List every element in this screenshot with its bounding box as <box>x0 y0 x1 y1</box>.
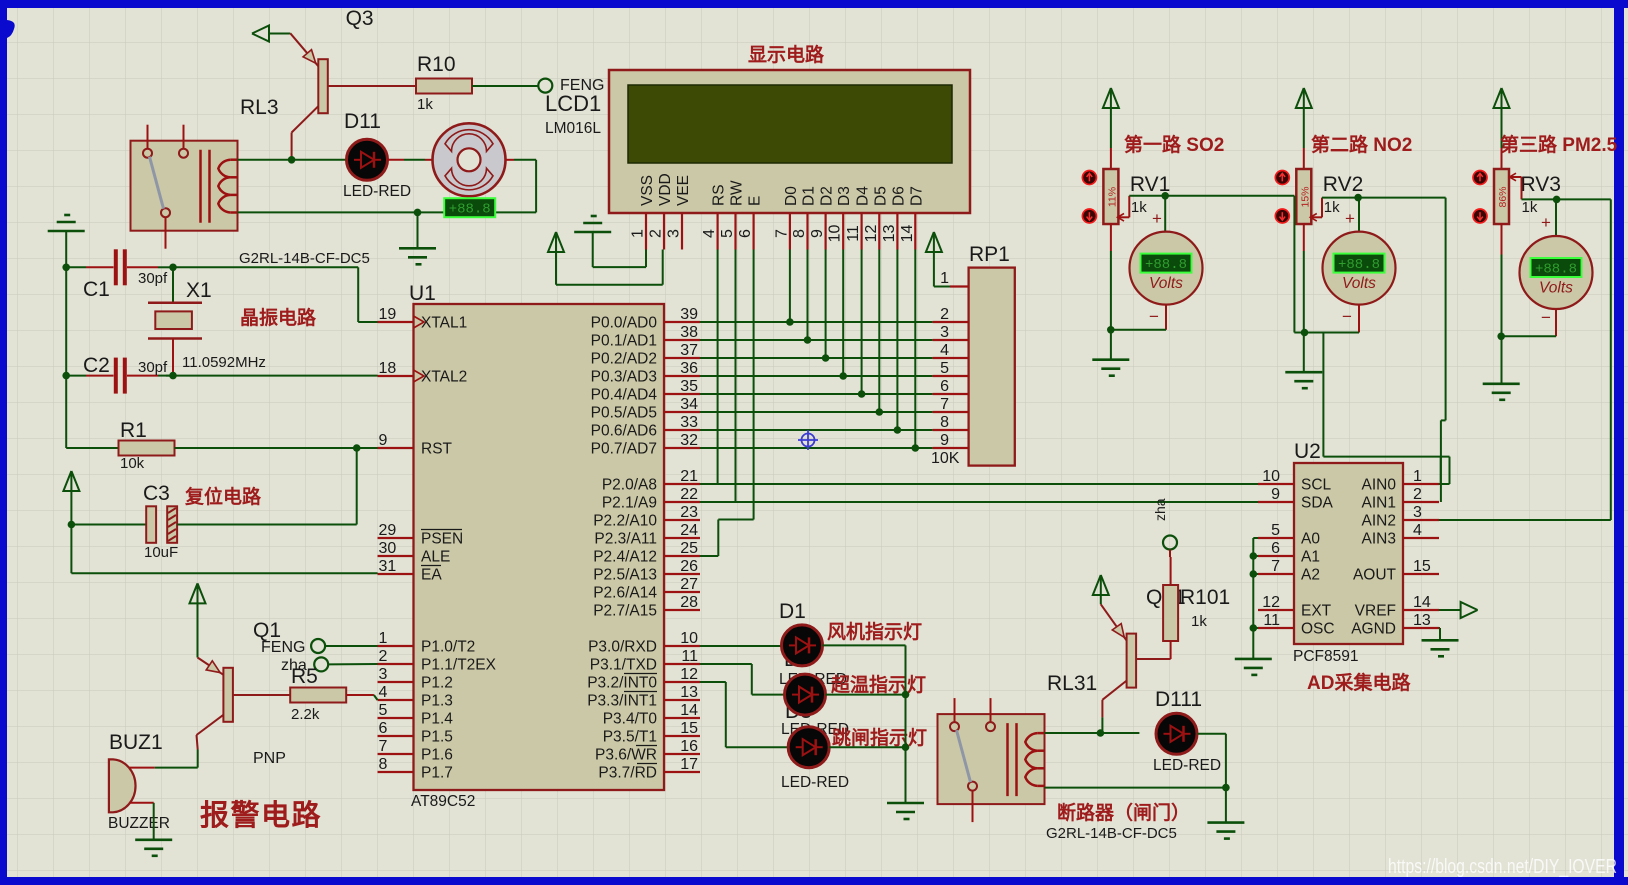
svg-text:1k: 1k <box>1131 199 1147 216</box>
svg-text:−: − <box>1149 307 1159 326</box>
svg-text:1k: 1k <box>1191 613 1207 630</box>
svg-text:VREF: VREF <box>1355 603 1396 620</box>
junction RST/C3 feedback <box>353 444 361 452</box>
svg-text:31: 31 <box>379 558 397 575</box>
terminal zha (P1.1) <box>314 657 328 671</box>
svg-text:EXT: EXT <box>1301 603 1332 620</box>
U2 pin 13 AGND <box>1403 627 1439 629</box>
svg-text:15%: 15% <box>1299 186 1311 207</box>
svg-text:VEE: VEE <box>675 175 692 206</box>
svg-text:D1: D1 <box>779 600 806 623</box>
svg-text:30pf: 30pf <box>138 359 168 376</box>
wire Q1 base to R5 <box>233 694 290 696</box>
ground <box>399 247 436 250</box>
svg-text:第二路 NO2: 第二路 NO2 <box>1311 133 1412 156</box>
svg-text:17: 17 <box>680 756 698 773</box>
wire zha to R101 <box>1169 550 1171 558</box>
voltmeter V3 <box>1520 236 1593 309</box>
wire LCD D7 to P0 bus <box>914 250 916 449</box>
svg-text:38: 38 <box>680 324 698 341</box>
svg-text:P0.6/AD6: P0.6/AD6 <box>591 423 657 440</box>
U1 pin 27 P2.6/A14 <box>664 591 700 593</box>
svg-text:7: 7 <box>1271 558 1280 575</box>
svg-text:11: 11 <box>681 648 698 665</box>
U2 pin 15 AOUT <box>1403 573 1439 575</box>
svg-text:2.2k: 2.2k <box>291 706 320 723</box>
wire P3.0 to D1 <box>700 645 782 647</box>
relay RL3 <box>131 141 238 231</box>
svg-text:13: 13 <box>1413 612 1431 629</box>
wire LCD D0 to P0 bus <box>789 250 791 323</box>
svg-text:P3.5/T1: P3.5/T1 <box>603 729 657 746</box>
motor rpm display <box>444 198 495 217</box>
svg-text:RP1: RP1 <box>969 243 1010 266</box>
U1 pin 17 P3.7/RD <box>664 771 700 773</box>
svg-text:10: 10 <box>680 630 698 647</box>
resistor R10 <box>416 79 472 94</box>
motor (fan) <box>433 123 506 196</box>
U2 pin 3 AIN2 <box>1403 519 1439 521</box>
buzzer BUZ1 <box>109 759 136 812</box>
svg-text:C2: C2 <box>83 354 110 377</box>
svg-text:P0.0/AD0: P0.0/AD0 <box>591 315 658 332</box>
svg-text:RS: RS <box>711 184 728 206</box>
wire VDD supply <box>555 252 557 285</box>
svg-text:10K: 10K <box>931 450 960 467</box>
ground <box>574 231 611 234</box>
svg-text:AIN2: AIN2 <box>1362 513 1396 530</box>
wire R101 to Q31 base <box>1170 641 1172 659</box>
svg-text:7: 7 <box>379 738 388 755</box>
svg-text:14: 14 <box>1413 594 1431 611</box>
svg-text:D11: D11 <box>344 110 381 133</box>
wire P0.1 to RP1 <box>700 339 933 341</box>
svg-text:6: 6 <box>379 720 388 737</box>
svg-text:12: 12 <box>1262 594 1280 611</box>
wire VSS to ground <box>645 250 647 268</box>
relay RL31 (breaker) <box>938 714 1045 804</box>
svg-text:P1.3: P1.3 <box>421 693 453 710</box>
U1 pin 16 P3.6/WR <box>664 753 700 755</box>
svg-text:6: 6 <box>737 229 754 238</box>
wire P3.1 to D2 <box>700 663 752 665</box>
svg-text:15: 15 <box>680 720 698 737</box>
RV2 wiper <box>1312 216 1322 218</box>
svg-text:XTAL2: XTAL2 <box>421 369 467 386</box>
svg-text:LED-RED: LED-RED <box>781 774 849 791</box>
wire Q3 collector down to relay/LED node <box>291 133 293 160</box>
U2 pin 5 A0 <box>1258 537 1294 539</box>
wire P0.6 to RP1 <box>700 429 933 431</box>
wire E vertical <box>753 250 755 520</box>
ground <box>1483 382 1520 385</box>
ground <box>887 802 924 805</box>
svg-text:OSC: OSC <box>1301 621 1335 638</box>
svg-text:23: 23 <box>680 504 698 521</box>
svg-text:第三路 PM2.5: 第三路 PM2.5 <box>1500 133 1618 156</box>
wire P0.7 to RP1 <box>700 447 933 449</box>
wire LCD D5 to P0 bus <box>878 250 880 413</box>
wire Q1 emitter supply <box>197 603 199 657</box>
svg-text:U2: U2 <box>1294 440 1321 463</box>
svg-text:11: 11 <box>845 225 862 242</box>
svg-text:9: 9 <box>1271 486 1280 503</box>
svg-text:P2.0/A8: P2.0/A8 <box>602 477 657 494</box>
U1 pin 21 P2.0/A8 <box>664 483 700 485</box>
power terminal <box>1494 88 1510 108</box>
svg-text:PNP: PNP <box>253 750 286 767</box>
svg-text:4: 4 <box>1413 522 1422 539</box>
power terminal <box>926 232 942 252</box>
svg-text:+: + <box>1152 209 1162 228</box>
crystal X1 <box>172 267 174 302</box>
wire RV3 bottom to ground <box>1501 223 1503 254</box>
U1 pin 28 P2.7/A15 <box>664 609 700 611</box>
wire to XTAL2 <box>166 375 378 377</box>
capacitor C1 <box>66 266 86 268</box>
power terminal <box>63 471 79 491</box>
wire D111 cathode <box>1198 733 1226 735</box>
wire V3 plus <box>1555 199 1557 235</box>
svg-text:G2RL-14B-CF-DC5: G2RL-14B-CF-DC5 <box>239 250 370 267</box>
svg-text:8: 8 <box>940 414 949 431</box>
svg-text:P0.5/AD5: P0.5/AD5 <box>591 405 657 422</box>
svg-text:39: 39 <box>680 306 698 323</box>
svg-text:D6: D6 <box>890 186 907 206</box>
U2 pin 14 VREF <box>1403 609 1439 611</box>
svg-text:R5: R5 <box>291 665 318 688</box>
wire V1 plus <box>1164 196 1166 232</box>
svg-text:D3: D3 <box>836 186 853 206</box>
wire motor right loop <box>506 159 515 161</box>
svg-text:P3.7/RD: P3.7/RD <box>598 765 657 782</box>
svg-text:SDA: SDA <box>1301 495 1334 512</box>
junction C2/X1 <box>169 372 177 380</box>
wire AGND to ground <box>1439 627 1440 629</box>
svg-text:34: 34 <box>680 396 698 413</box>
voltmeter V1 <box>1130 232 1203 305</box>
junction RV3 wiper / V3+ <box>1553 196 1561 204</box>
U1 pin 11 P3.1/TXD <box>664 663 700 665</box>
svg-text:−: − <box>1541 308 1551 327</box>
potentiometer RV1 1k <box>1103 169 1118 224</box>
transistor Q3 (PNP) <box>290 33 318 66</box>
power terminal (VREF) <box>1439 609 1461 611</box>
svg-text:C3: C3 <box>143 482 170 505</box>
svg-text:EA: EA <box>421 567 442 584</box>
U2 pin 11 OSC <box>1258 627 1294 629</box>
svg-text:19: 19 <box>379 306 397 323</box>
svg-text:RV2: RV2 <box>1323 173 1363 196</box>
wire V2 plus <box>1358 198 1360 232</box>
svg-text:SCL: SCL <box>1301 477 1332 494</box>
power terminal <box>1093 575 1109 595</box>
LCD screen <box>628 85 952 163</box>
wire RV3 wiper to AIN2 <box>1557 198 1611 200</box>
svg-text:+88.8: +88.8 <box>1535 262 1577 278</box>
svg-text:5: 5 <box>940 360 949 377</box>
svg-text:A2: A2 <box>1301 567 1320 584</box>
wire P0.2 to RP1 <box>700 357 933 359</box>
svg-text:LM016L: LM016L <box>545 120 601 137</box>
ground <box>135 838 172 841</box>
svg-text:3: 3 <box>940 324 949 341</box>
svg-text:+88.8: +88.8 <box>449 202 491 218</box>
RV1 wiper <box>1119 216 1129 218</box>
svg-text:D7: D7 <box>908 186 925 206</box>
svg-text:Volts: Volts <box>1539 280 1573 297</box>
U1 pin 37 P0.2/AD2 <box>664 357 700 359</box>
wire relay coil top to node <box>238 159 347 161</box>
svg-text:LED-RED: LED-RED <box>343 183 411 200</box>
svg-text:P1.6: P1.6 <box>421 747 453 764</box>
svg-text:−: − <box>1342 307 1352 326</box>
ground <box>1092 358 1129 361</box>
svg-text:P3.4/T0: P3.4/T0 <box>603 711 658 728</box>
wire relay coil bottom row <box>238 211 537 213</box>
transistor Q31 (PNP) <box>1101 604 1127 640</box>
svg-text:晶振电路: 晶振电路 <box>240 306 317 329</box>
svg-text:BUZ1: BUZ1 <box>109 731 163 754</box>
U1 XTAL1 input arrow <box>414 316 425 328</box>
wire C1 row to XTAL1 <box>173 266 358 268</box>
wire EA row <box>71 572 377 574</box>
U2 pin 12 EXT <box>1258 609 1294 611</box>
potentiometer RV3 1k <box>1494 169 1509 224</box>
svg-text:1: 1 <box>630 229 647 238</box>
junction RV1 bottom <box>1107 326 1115 334</box>
U1 pin 22 P2.1/A9 <box>664 501 700 503</box>
wire Q1 collector to buzzer <box>197 735 198 750</box>
svg-text:Q1: Q1 <box>253 619 281 642</box>
svg-text:断路器（闸门）: 断路器（闸门） <box>1057 801 1190 824</box>
U1 pin 15 P3.5/T1 <box>664 735 700 737</box>
RP1 pin 3 <box>933 339 969 341</box>
svg-text:11.0592MHz: 11.0592MHz <box>182 354 266 371</box>
RP1 pin 1 <box>950 285 969 287</box>
U2 pin 4 AIN3 <box>1403 537 1439 539</box>
svg-text:9: 9 <box>940 432 949 449</box>
wire zha to P1.1 <box>328 663 377 665</box>
svg-text:LED-RED: LED-RED <box>1153 757 1221 774</box>
svg-text:超温指示灯: 超温指示灯 <box>830 673 926 696</box>
svg-text:RW: RW <box>729 180 746 206</box>
terminal FENG (P1.0) <box>311 639 325 653</box>
svg-text:https://blog.csdn.net/DIY_IOVE: https://blog.csdn.net/DIY_IOVER <box>1388 856 1617 878</box>
svg-text:显示电路: 显示电路 <box>748 43 825 66</box>
svg-text:10: 10 <box>1262 468 1280 485</box>
wire P0.0 to RP1 <box>700 321 933 323</box>
svg-text:11%: 11% <box>1106 187 1118 207</box>
svg-text:18: 18 <box>379 360 397 377</box>
wire Q3 base to R10 <box>328 85 417 87</box>
U1 pin 12 P3.2/INT0 <box>664 681 700 683</box>
svg-text:Volts: Volts <box>1149 275 1183 292</box>
svg-text:8: 8 <box>791 229 808 238</box>
svg-text:AT89C52: AT89C52 <box>411 793 475 810</box>
wire relay RL31 coil bottom <box>1045 787 1226 789</box>
U1 pin 29 PSEN <box>378 537 414 539</box>
wire LCD D4 to P0 bus <box>861 250 863 395</box>
svg-text:G2RL-14B-CF-DC5: G2RL-14B-CF-DC5 <box>1046 825 1177 842</box>
U1 pin 14 P3.4/T0 <box>664 717 700 719</box>
svg-text:zha: zha <box>1152 498 1168 521</box>
U2 pin 7 A2 <box>1258 573 1294 575</box>
svg-text:36: 36 <box>680 360 698 377</box>
RP1 pin 5 <box>933 375 969 377</box>
svg-text:RV3: RV3 <box>1521 173 1561 196</box>
wire P2.1 row to U2 SDA <box>700 501 1258 503</box>
U1 pin 23 P2.2/A10 <box>664 519 700 521</box>
U1 pin 35 P0.4/AD4 <box>664 393 700 395</box>
U1 pin 32 P0.7/AD7 <box>664 447 700 449</box>
junction D2 cathode <box>902 691 910 699</box>
svg-text:+88.8: +88.8 <box>1145 257 1187 273</box>
svg-text:P1.5: P1.5 <box>421 729 453 746</box>
svg-text:AIN0: AIN0 <box>1362 477 1397 494</box>
svg-text:10uF: 10uF <box>144 544 178 561</box>
svg-text:PCF8591: PCF8591 <box>1293 648 1358 665</box>
svg-text:P2.2/A10: P2.2/A10 <box>593 513 657 530</box>
U1 pin 39 P0.0/AD0 <box>664 321 700 323</box>
U1 XTAL2 input arrow <box>414 370 425 382</box>
svg-text:RL31: RL31 <box>1047 672 1097 695</box>
svg-text:R1: R1 <box>120 419 147 442</box>
wire D11 to motor <box>388 159 405 161</box>
svg-text:24: 24 <box>680 522 698 539</box>
svg-text:D2: D2 <box>819 186 836 206</box>
svg-text:10k: 10k <box>120 455 145 472</box>
junction Q31 collector <box>1097 729 1105 737</box>
svg-text:ALE: ALE <box>421 549 450 566</box>
RP1 pin 2 <box>933 321 969 323</box>
wire RV1 wiper to AIN0 <box>1293 196 1295 333</box>
U1 pin 33 P0.6/AD6 <box>664 429 700 431</box>
svg-text:28: 28 <box>680 594 698 611</box>
junction C3 <box>68 521 76 529</box>
svg-text:2: 2 <box>1413 486 1422 503</box>
sheet border frame <box>0 0 1628 8</box>
svg-text:22: 22 <box>680 486 698 503</box>
svg-text:P2.6/A14: P2.6/A14 <box>593 585 657 602</box>
svg-text:P2.1/A9: P2.1/A9 <box>602 495 657 512</box>
svg-text:AIN1: AIN1 <box>1362 495 1396 512</box>
U1 pin 30 ALE <box>378 555 414 557</box>
U1 pin 5 P1.4 <box>378 717 414 719</box>
junction RV3 bottom <box>1497 333 1505 341</box>
svg-text:5: 5 <box>379 702 388 719</box>
svg-text:D5: D5 <box>872 186 889 206</box>
ADC U2 PCF8591 <box>1294 463 1403 644</box>
U1 pin 7 P1.6 <box>378 753 414 755</box>
U1 pin 25 P2.4/A12 <box>664 555 700 557</box>
svg-text:P3.6/WR: P3.6/WR <box>595 747 657 764</box>
power terminal <box>252 26 269 42</box>
wire RV1 bottom to ground <box>1110 223 1112 251</box>
resistor R5 <box>290 688 346 703</box>
ground <box>48 230 85 233</box>
U1 pin 19 XTAL1 <box>378 321 414 323</box>
svg-text:1: 1 <box>379 630 388 647</box>
wire P3.2 to D3 <box>700 681 726 683</box>
svg-text:D4: D4 <box>855 186 872 206</box>
U1 pin 26 P2.5/A13 <box>664 573 700 575</box>
svg-text:25: 25 <box>680 540 698 557</box>
RP1 pin 6 <box>933 393 969 395</box>
resistor R1 <box>119 441 175 456</box>
svg-text:4: 4 <box>701 229 718 238</box>
svg-text:PSEN: PSEN <box>421 531 463 548</box>
wire Q31 collector down <box>1101 700 1103 718</box>
U1 pin 8 P1.7 <box>378 771 414 773</box>
svg-text:D111: D111 <box>1155 688 1202 711</box>
RP1 pin 7 <box>933 411 969 413</box>
U1 pin 2 P1.1/T2EX <box>378 663 414 665</box>
svg-text:AD采集电路: AD采集电路 <box>1307 671 1411 694</box>
U1 pin 31 EA <box>378 573 414 575</box>
svg-text:4: 4 <box>940 342 949 359</box>
wire LCD D2 to P0 bus <box>825 250 827 359</box>
power terminal <box>548 232 564 252</box>
svg-text:37: 37 <box>680 342 698 359</box>
svg-text:5: 5 <box>719 229 736 238</box>
capacitor C2 <box>66 375 86 377</box>
svg-text:P2.5/A13: P2.5/A13 <box>593 567 657 584</box>
wire buzzer to ground <box>130 802 154 804</box>
svg-text:1: 1 <box>940 270 949 287</box>
wire LCD D6 to P0 bus <box>896 250 898 431</box>
RV3 wiper <box>1511 176 1522 178</box>
svg-text:P0.3/AD3: P0.3/AD3 <box>591 369 657 386</box>
wire P0.4 to RP1 <box>700 393 933 395</box>
svg-text:30pf: 30pf <box>138 270 168 287</box>
U2 pin 9 SDA <box>1258 501 1294 503</box>
svg-text:跳闸指示灯: 跳闸指示灯 <box>832 726 927 749</box>
svg-text:5: 5 <box>1271 522 1280 539</box>
svg-text:D1: D1 <box>801 186 818 206</box>
svg-text:16: 16 <box>680 738 698 755</box>
svg-text:P0.7/AD7: P0.7/AD7 <box>591 441 657 458</box>
svg-text:6: 6 <box>940 378 949 395</box>
svg-text:10: 10 <box>827 225 844 243</box>
svg-text:VDD: VDD <box>657 173 674 206</box>
LED D11 <box>347 139 388 180</box>
wire RV2 bottom to ground <box>1303 223 1305 251</box>
svg-text:C1: C1 <box>83 278 110 301</box>
junction RV1 wiper / V1+ <box>1161 192 1169 200</box>
svg-text:RST: RST <box>421 441 453 458</box>
junction Q3 collector / relay / D11 <box>288 156 296 164</box>
U1 pin 10 P3.0/RXD <box>664 645 700 647</box>
svg-text:11: 11 <box>1263 612 1280 629</box>
junction D3 cathode <box>902 743 910 751</box>
svg-text:复位电路: 复位电路 <box>184 485 262 508</box>
svg-text:26: 26 <box>680 558 698 575</box>
svg-text:27: 27 <box>680 576 698 593</box>
svg-text:3: 3 <box>666 229 683 238</box>
U1 pin 1 P1.0/T2 <box>378 645 414 647</box>
svg-text:P3.2/INT0: P3.2/INT0 <box>587 675 657 692</box>
RP1 pin 9 <box>933 447 969 449</box>
svg-text:13: 13 <box>680 684 698 701</box>
svg-text:+: + <box>1345 209 1355 228</box>
U1 pin 34 P0.5/AD5 <box>664 411 700 413</box>
svg-text:2: 2 <box>379 648 388 665</box>
svg-text:D0: D0 <box>783 186 800 206</box>
svg-text:13: 13 <box>881 225 898 243</box>
U2 pin 10 SCL <box>1258 483 1294 485</box>
svg-text:30: 30 <box>379 540 397 557</box>
